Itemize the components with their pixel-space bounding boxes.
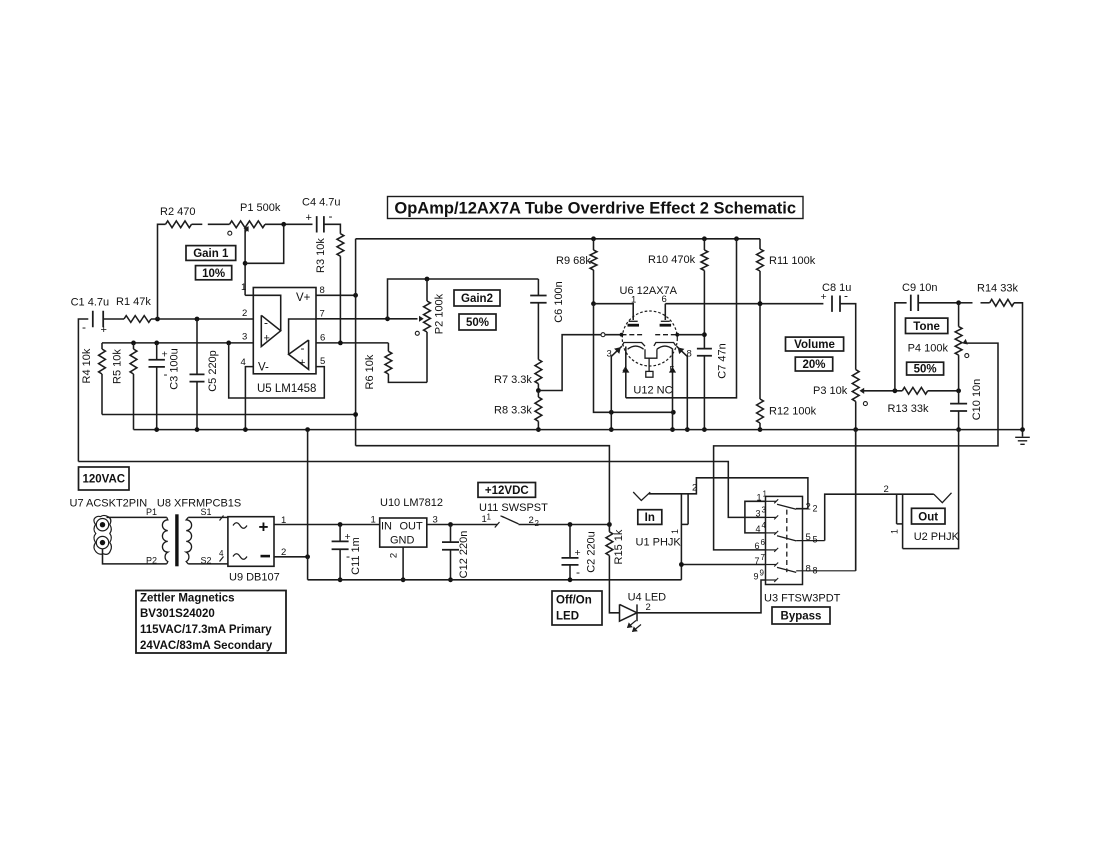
U3 arm pole3: [777, 567, 796, 572]
U11 pin 1 tick: [495, 522, 500, 528]
wire: R14 line (with break): [959, 302, 973, 304]
svg-text:2: 2: [692, 483, 697, 494]
junction: cathode1 ground: [609, 427, 614, 432]
P4 pin3 circle: [965, 354, 969, 358]
U5 A output route to pin1: [253, 295, 280, 331]
wire: U5 pin6: [316, 342, 388, 344]
junction: P3 bottom ground: [853, 427, 858, 432]
svg-text:C3 100u: C3 100u: [169, 348, 181, 390]
svg-text:8: 8: [813, 566, 818, 576]
svg-text:5: 5: [670, 365, 675, 375]
wire: wiper strap to P1 right end: [245, 224, 284, 263]
wire: U5 pin7 output: [316, 318, 418, 320]
junction: C3 top: [154, 341, 159, 346]
capacitor C10: [958, 391, 960, 404]
U3 pin 9 stub: [766, 579, 777, 581]
potentiometer P4: [958, 303, 960, 327]
tone value box: [907, 362, 944, 375]
svg-text:R14 33k: R14 33k: [977, 283, 1018, 295]
junction: grid1 at envelope: [620, 333, 624, 337]
svg-text:P3 10k: P3 10k: [813, 385, 848, 397]
U9 tilde bottom: [233, 554, 247, 560]
junction: R4/V- line on riser: [353, 412, 358, 417]
svg-text:1: 1: [763, 490, 768, 499]
P4 wiper arrow: [963, 340, 967, 344]
svg-text:R2 470: R2 470: [160, 206, 195, 218]
In jack tip contact: [633, 492, 650, 501]
svg-text:115VAC/17.3mA Primary: 115VAC/17.3mA Primary: [140, 624, 272, 636]
grid pin circle: [601, 333, 605, 337]
svg-text:C6 100n: C6 100n: [553, 281, 565, 323]
wire: pin 3 bias node: [102, 342, 253, 344]
U3 pin 3 stub: [766, 516, 777, 518]
svg-text:U7 ACSKT2PIN: U7 ACSKT2PIN: [70, 498, 148, 510]
svg-text:U12 NC: U12 NC: [633, 385, 672, 397]
svg-text:P2 100k: P2 100k: [434, 293, 446, 334]
junction: grid2/R10/C7: [702, 332, 707, 337]
junction: pin8 ground: [685, 427, 690, 432]
wire: +12V riser: [355, 239, 357, 446]
svg-text:C4 4.7u: C4 4.7u: [302, 197, 341, 209]
junction: cathode1 tie: [609, 410, 614, 415]
svg-text:50%: 50%: [914, 364, 937, 376]
svg-text:1: 1: [241, 282, 246, 293]
title box: [388, 197, 804, 219]
U11 switch arm: [501, 516, 505, 518]
resistor R11: [759, 239, 761, 249]
junction: C5 top: [195, 317, 200, 322]
wire: switch to +12V node: [519, 524, 610, 526]
svg-text:6: 6: [320, 333, 325, 344]
resistor R7: [535, 360, 542, 384]
op-amp U5 box: [253, 288, 316, 374]
svg-text:-: -: [264, 316, 268, 330]
resistor R12: [759, 304, 761, 399]
wire: R1 to op-amp pin 2: [151, 318, 253, 320]
U3 pin 2 stub: [796, 508, 808, 510]
wire: C1 to R1: [103, 318, 124, 320]
bridge U9 box: [228, 517, 274, 567]
Out jack tip contact: [934, 493, 952, 503]
socket U7 outline: [94, 515, 112, 554]
resistor R2: [166, 221, 192, 228]
label box Out: [912, 508, 946, 524]
label box In: [638, 510, 662, 525]
svg-text:C2 220u: C2 220u: [586, 531, 598, 573]
wire: U10 GND pin: [402, 547, 404, 580]
svg-text:Gain 1: Gain 1: [193, 248, 229, 260]
footswitch dashed link: [786, 510, 788, 572]
wire: tube pin 6 to plate: [664, 304, 666, 320]
svg-text:R10 470k: R10 470k: [648, 254, 696, 266]
svg-text:1: 1: [670, 529, 680, 534]
P2 wiper arrow: [419, 317, 423, 322]
svg-text:8: 8: [687, 349, 692, 360]
wire: C8 to P3: [840, 304, 855, 370]
junction: plate2/R11/R12: [758, 301, 763, 306]
svg-text:+: +: [264, 333, 270, 345]
P1 pin3 circle: [228, 231, 232, 235]
U5 B output route to pin7: [289, 319, 316, 354]
capacitor C12: [450, 525, 452, 543]
U3 arm pole1: [777, 504, 796, 509]
svg-text:2: 2: [806, 502, 811, 513]
gain2 value box: [459, 314, 496, 330]
svg-text:9: 9: [760, 569, 765, 578]
svg-text:120VAC: 120VAC: [82, 474, 125, 486]
junction: R10 top: [702, 236, 707, 241]
U6 plate 2 bar: [660, 324, 672, 327]
svg-text:U10 LM7812: U10 LM7812: [380, 497, 443, 509]
svg-text:-: -: [844, 289, 848, 303]
LED light arrows: [628, 621, 637, 628]
svg-text:1: 1: [890, 529, 900, 534]
svg-text:10%: 10%: [202, 268, 225, 280]
footswitch U3 box: [766, 496, 803, 584]
wire: tip to pin2 route: [649, 478, 808, 509]
svg-text:7: 7: [761, 553, 766, 562]
svg-text:P4 100k: P4 100k: [908, 343, 949, 355]
resistor R5: [133, 343, 135, 349]
resistor R9: [593, 239, 595, 250]
wire: U5 pin1 stub: [245, 294, 253, 296]
gain1 label box: [186, 246, 236, 261]
wire: main ground rail: [134, 429, 1023, 431]
svg-text:Volume: Volume: [794, 339, 835, 351]
wire: heater pin 4: [625, 347, 627, 398]
svg-text:C5 220p: C5 220p: [207, 350, 219, 392]
svg-text:8: 8: [320, 285, 325, 296]
svg-text:R4 10k: R4 10k: [81, 348, 93, 383]
wire: P3 wiper to R13: [862, 390, 902, 392]
U3 pin 7 stub: [766, 564, 777, 566]
regulator U10 box: [380, 518, 427, 547]
wire: P1 wiper down to U5 pin1: [244, 230, 246, 296]
junction: P4 top: [956, 300, 961, 305]
tick: bridge in bottom: [220, 557, 224, 562]
svg-text:C12 220n: C12 220n: [458, 531, 470, 579]
wire: pin5 feedback loop to pin3 node: [229, 343, 325, 398]
svg-text:+: +: [299, 357, 305, 369]
wire: cathode1 to ground rail: [610, 412, 612, 429]
svg-text:R9 68k: R9 68k: [556, 255, 591, 267]
junction: R14 ground: [1020, 427, 1025, 432]
junction: U10 gnd: [401, 577, 406, 582]
P2 pin3 circle: [415, 331, 419, 335]
junction: minus node: [305, 554, 310, 559]
svg-text:IN: IN: [381, 521, 392, 533]
wire: grid2 to R10 node: [677, 334, 704, 336]
svg-text:U9 DB107: U9 DB107: [229, 572, 280, 584]
In jack sleeve lines: [680, 494, 682, 580]
svg-text:5: 5: [320, 356, 325, 367]
svg-text:C10 10n: C10 10n: [971, 379, 983, 421]
U9 tilde top: [233, 523, 247, 529]
U6 cathode 1: [622, 343, 645, 347]
svg-text:C11 1m: C11 1m: [350, 537, 362, 575]
svg-text:U1 PHJK: U1 PHJK: [636, 537, 682, 549]
junction: U5 pin4 ground: [243, 427, 248, 432]
zettler info box: [136, 591, 286, 654]
wire: +12V distribution: [356, 446, 610, 525]
svg-text:OUT: OUT: [400, 521, 424, 533]
wire: R3 to U5 pin 6 node: [339, 256, 341, 343]
pin3 arrowhead: [615, 348, 620, 353]
svg-text:2: 2: [646, 602, 651, 613]
svg-text:Tone: Tone: [913, 321, 940, 333]
svg-text:P2: P2: [146, 556, 157, 566]
junction: C7 ground: [702, 427, 707, 432]
svg-text:C7 47n: C7 47n: [717, 343, 729, 378]
wire: heater feed: [626, 239, 737, 398]
wire: P3 bottom to footswitch pin8: [855, 430, 857, 571]
wire: input left vertical (C1 left to bypass line): [78, 319, 88, 462]
volume value box: [795, 357, 832, 371]
svg-text:Gain2: Gain2: [461, 293, 493, 305]
wire: +12V top rail: [356, 238, 760, 240]
svg-text:U5 LM1458: U5 LM1458: [257, 383, 316, 395]
junction: pin5 loop: [226, 341, 231, 346]
junction: R9 top: [591, 236, 596, 241]
svg-text:R3 10k: R3 10k: [315, 238, 327, 273]
capacitor C1: [93, 311, 103, 327]
gain1 value box: [196, 266, 232, 280]
svg-text:-: -: [329, 209, 333, 223]
junction: C10 ground: [956, 427, 961, 432]
svg-text:1: 1: [371, 515, 376, 526]
potentiometer P1: [230, 221, 266, 228]
resistor R1: [124, 316, 151, 323]
svg-text:1: 1: [487, 513, 492, 522]
junction: C5 ground: [195, 427, 200, 432]
wire: U3 pins 1-4 bracket: [745, 501, 766, 533]
wire: cathode 1 drop: [611, 346, 622, 412]
svg-text:R13 33k: R13 33k: [888, 403, 929, 415]
svg-text:R7 3.3k: R7 3.3k: [494, 374, 532, 386]
junction: R3 on pin6 wire: [338, 341, 343, 346]
wire: heater pin 5: [672, 349, 674, 429]
resistor R10: [703, 239, 705, 250]
wire: bridge plus to U10: [274, 524, 380, 526]
junction: wiper strap: [243, 261, 248, 266]
wire: U10 out: [427, 524, 498, 526]
svg-text:+: +: [259, 518, 269, 537]
wire: LED to footswitch pin9: [637, 580, 766, 613]
svg-text:4: 4: [623, 365, 628, 375]
op-amp U5 triangle A: [261, 315, 280, 346]
capacitor C9: [911, 295, 918, 311]
P1 wiper arrow: [245, 228, 248, 232]
junction: P4 bottom/C10: [956, 388, 961, 393]
U6 heater cup: [645, 349, 657, 358]
U6 cathode 2: [654, 343, 676, 346]
pin8 arrowhead: [678, 348, 683, 353]
svg-text:2: 2: [242, 308, 247, 319]
capacitor C3: [156, 343, 158, 360]
wire: P1 to C4: [265, 223, 313, 225]
junction: R12 ground: [758, 427, 763, 432]
svg-text:7: 7: [755, 556, 760, 566]
transformer U8 primary: [162, 517, 167, 564]
junction: C2 ground: [568, 577, 573, 582]
capacitor C7: [697, 349, 712, 356]
capacitor C2: [569, 525, 571, 558]
wire: grid circle to tube: [605, 334, 621, 336]
svg-text:R12 100k: R12 100k: [769, 406, 817, 418]
ground symbol: [1022, 430, 1024, 437]
junction: P2 top: [425, 277, 430, 282]
tone label box: [906, 318, 948, 333]
LED U4 triangle: [620, 604, 638, 621]
resistor R4: [101, 343, 103, 349]
junction: P2 top branch: [385, 316, 390, 321]
junction: heater feed top: [734, 236, 739, 241]
svg-text:C1 4.7u: C1 4.7u: [71, 297, 110, 309]
wire: footswitch pin5 to out tip: [825, 494, 934, 540]
wire: plate2 out to C8: [665, 303, 823, 305]
svg-text:3: 3: [242, 332, 247, 343]
svg-text:S1: S1: [201, 507, 212, 517]
U3 pin 1 stub: [766, 500, 777, 502]
wire: divider to grid 1: [538, 335, 600, 391]
junction: C11 ground: [338, 577, 343, 582]
junction: +12V node: [607, 522, 612, 527]
svg-text:P1 500k: P1 500k: [240, 202, 281, 214]
junction: heater 5 tie: [671, 410, 676, 415]
wire: R4 bottom to V rail riser: [102, 414, 356, 416]
junction: C9 branch: [893, 388, 898, 393]
svg-text:P1: P1: [146, 507, 157, 517]
svg-text:V+: V+: [296, 292, 311, 304]
junction: C11 top: [338, 522, 343, 527]
svg-text:3: 3: [756, 509, 761, 519]
wire: R13 to P4 bottom: [928, 390, 959, 392]
svg-text:2: 2: [884, 484, 889, 495]
wire: minus riser to ground rail: [307, 430, 309, 580]
junction: pin7 sleeve: [679, 562, 684, 567]
potentiometer P2: [426, 279, 428, 301]
wire: P2 top branch: [388, 279, 539, 319]
U3 pin 5 stub: [796, 540, 825, 542]
svg-text:-: -: [576, 565, 580, 579]
U9 minus sign: [261, 555, 271, 558]
junction: pin8 on +12V riser: [353, 293, 358, 298]
wire: out sleeve to ground rail: [903, 430, 959, 549]
resistor R15: [608, 525, 610, 532]
svg-text:2: 2: [535, 519, 540, 528]
svg-text:24VAC/83mA Secondary: 24VAC/83mA Secondary: [140, 640, 273, 652]
svg-text:R8 3.3k: R8 3.3k: [494, 405, 532, 417]
svg-text:9: 9: [754, 572, 759, 582]
capacitor C6: [537, 279, 539, 295]
svg-text:8: 8: [806, 564, 811, 575]
socket U7 pin circles: [96, 519, 108, 531]
svg-text:Bypass: Bypass: [781, 611, 822, 623]
svg-text:U6 12AX7A: U6 12AX7A: [620, 285, 678, 297]
U3 arm pole2: [777, 536, 796, 541]
junction: R11 node: [758, 301, 763, 306]
svg-text:Out: Out: [918, 511, 938, 523]
junction: C3 ground: [154, 427, 159, 432]
transformer U8 secondary: [186, 517, 191, 564]
svg-text:3: 3: [762, 506, 767, 515]
svg-text:2: 2: [389, 553, 400, 558]
svg-text:6: 6: [761, 538, 766, 547]
wire: U5 pin8 to +12V riser: [316, 294, 356, 296]
wire: cathode 2 drop: [677, 346, 688, 429]
svg-text:+: +: [575, 547, 581, 559]
resistor R14: [990, 299, 1014, 306]
U6 pin9 lead: [648, 358, 650, 371]
wire: C9 riser: [895, 303, 907, 391]
U6 plate 1 lead bar: [629, 320, 638, 322]
U3 pin 6 stub: [766, 549, 777, 551]
U3 pin 4 stub: [766, 532, 777, 534]
U6 plate 1 bar: [628, 324, 640, 327]
svg-text:+: +: [306, 212, 312, 224]
svg-text:-: -: [164, 367, 168, 381]
svg-text:U8 XFRMPCB1S: U8 XFRMPCB1S: [157, 498, 241, 510]
svg-text:R6 10k: R6 10k: [364, 354, 376, 389]
svg-text:50%: 50%: [466, 317, 489, 329]
svg-text:R5 10k: R5 10k: [112, 349, 124, 384]
label box Bypass: [772, 607, 830, 624]
junction: pin5 ground: [670, 427, 675, 432]
svg-text:Off/On: Off/On: [556, 595, 592, 607]
U6 plate 2 lead bar: [661, 320, 670, 322]
op-amp U5 triangle B: [289, 340, 309, 369]
tube U6 envelope: [622, 311, 677, 366]
label box +12VDC: [478, 483, 536, 498]
label box Off/On LED: [552, 591, 602, 625]
junction: R8 to ground rail: [536, 427, 541, 432]
capacitor C8: [832, 296, 840, 312]
wire: R9 node to tube pin1: [594, 304, 634, 320]
U12 NC square: [646, 371, 653, 377]
svg-text:U2 PHJK: U2 PHJK: [914, 531, 960, 543]
svg-text:BV301S24020: BV301S24020: [140, 608, 215, 620]
svg-text:4: 4: [219, 549, 224, 558]
Out jack sleeve lines: [896, 494, 898, 524]
resistor R3: [337, 234, 344, 257]
transformer U8 core: [175, 514, 178, 566]
P3 wiper arrow: [860, 389, 864, 394]
resistor R8: [537, 391, 539, 398]
U3 pin 8 stub: [796, 570, 856, 572]
svg-text:C9 10n: C9 10n: [902, 282, 937, 294]
pin5 arrowhead: [670, 368, 676, 373]
tick: bridge in top: [220, 516, 224, 521]
resistor R13: [902, 387, 927, 394]
wire: socket to primary bottom: [103, 549, 167, 564]
wire: bridge minus: [274, 556, 308, 558]
wire: power ground rail: [308, 579, 682, 581]
svg-text:5: 5: [806, 532, 811, 543]
svg-text:In: In: [645, 512, 655, 524]
wire: C4 to R3: [324, 224, 340, 233]
wire: bypass input line: [78, 462, 765, 518]
LED U4 cathode bar: [636, 604, 638, 621]
svg-text:6: 6: [755, 541, 760, 551]
wire: secondary top to bridge: [188, 516, 228, 518]
junction: C12 top: [448, 522, 453, 527]
svg-text:4: 4: [762, 521, 767, 530]
wire: R2 to P1 (with break): [192, 223, 203, 225]
U6 grid 1 dashed: [622, 334, 644, 336]
U6 heater arc right: [657, 346, 673, 349]
resistor R6: [387, 343, 389, 351]
svg-text:GND: GND: [390, 535, 415, 547]
